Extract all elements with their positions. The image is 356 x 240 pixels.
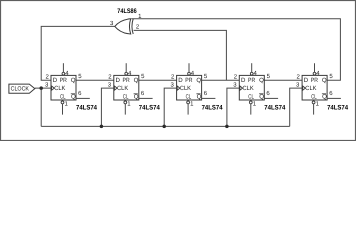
- wire: FF4 Q to FF5 D: [264, 79, 302, 81]
- junction: clock node: [39, 86, 43, 90]
- body outline: [177, 75, 202, 100]
- svg-text:D: D: [241, 77, 246, 84]
- svg-text:CLK: CLK: [117, 85, 128, 92]
- svg-text:PR: PR: [60, 77, 68, 84]
- svg-text:74LS74: 74LS74: [264, 105, 285, 112]
- wire: FF2 CLK drop to bus: [101, 88, 113, 126]
- CL active-low bubble: [249, 101, 252, 104]
- wire: PR stub: [251, 63, 253, 72]
- flip-flop U3 74LS74: [108, 63, 160, 114]
- wire: clock vertical down to bus: [40, 88, 42, 126]
- wire: CL stub: [313, 104, 315, 115]
- wire: XOR output feedback down to FF1 D input: [41, 26, 115, 80]
- svg-text:Q: Q: [322, 94, 327, 101]
- svg-text:CLK: CLK: [54, 85, 65, 92]
- wire: PR stub: [314, 63, 316, 72]
- wire: CL stub: [250, 104, 252, 115]
- wire: Qbar pin 6 stub: [202, 97, 216, 99]
- wire: FF4 CLK drop to bus: [227, 88, 239, 126]
- svg-text:CLK: CLK: [180, 85, 191, 92]
- wire: Qbar pin 6 stub: [139, 97, 153, 99]
- junction: bus under FF4: [225, 125, 229, 128]
- svg-text:CL: CL: [311, 94, 317, 101]
- wire: Qbar pin 6 stub: [264, 97, 278, 99]
- wire: FF1 Q to FF2 D: [76, 79, 114, 81]
- CL active-low bubble: [312, 101, 315, 104]
- PR active-low bubble: [250, 72, 253, 75]
- clock input wedge: [114, 86, 117, 90]
- clock input wedge: [240, 86, 243, 90]
- svg-text:Q: Q: [196, 77, 201, 84]
- svg-text:Q: Q: [322, 77, 327, 84]
- wire: bottom clock bus: [41, 125, 290, 127]
- svg-text:D: D: [116, 77, 121, 84]
- XOR gate U1 74LS86 (mirrored, output at left): [110, 8, 142, 34]
- svg-text:Q: Q: [259, 94, 264, 101]
- PR active-low bubble: [62, 72, 65, 75]
- wire: PR stub: [188, 63, 190, 72]
- svg-text:74LS74: 74LS74: [202, 105, 223, 112]
- wire: CL stub: [124, 104, 126, 115]
- svg-text:CL: CL: [60, 94, 66, 101]
- svg-text:D: D: [178, 77, 183, 84]
- clock input wedge: [177, 86, 180, 90]
- wire: FF5 Q up and across to XOR pin 1: [131, 19, 340, 80]
- wire: FF3 CLK drop to bus: [164, 88, 176, 126]
- wire: FF3 Q to FF4 D: [202, 79, 240, 81]
- wire: XOR pin 2 tap down to FF3 Q / FF4 D node: [134, 30, 227, 80]
- XOR second input arc: [132, 19, 133, 34]
- svg-text:74LS74: 74LS74: [76, 105, 97, 112]
- svg-text:PR: PR: [248, 77, 256, 84]
- junction: bus under FF2: [100, 125, 104, 128]
- CL active-low bubble: [61, 101, 64, 104]
- body outline: [239, 75, 264, 100]
- PR active-low bubble: [125, 72, 128, 75]
- gate body: [115, 19, 131, 34]
- body outline: [302, 75, 327, 100]
- svg-text:74LS86: 74LS86: [117, 8, 137, 15]
- svg-text:Q: Q: [134, 94, 139, 101]
- svg-text:CLK: CLK: [243, 85, 254, 92]
- PR active-low bubble: [313, 72, 316, 75]
- body outline: [51, 75, 76, 100]
- flip-flop U5 74LS74: [233, 63, 285, 114]
- CL active-low bubble: [187, 101, 190, 104]
- clock input wedge: [303, 86, 306, 90]
- svg-text:D: D: [53, 77, 58, 84]
- svg-text:Q: Q: [197, 94, 202, 101]
- svg-text:PR: PR: [311, 77, 319, 84]
- svg-text:CL: CL: [186, 94, 192, 101]
- svg-text:D: D: [304, 77, 309, 84]
- flip-flop U4 74LS74: [171, 63, 223, 114]
- border frame: [1, 1, 356, 141]
- svg-text:Q: Q: [259, 77, 264, 84]
- wire: Qbar pin 6 stub: [327, 97, 341, 99]
- wire: FF2 Q to FF3 D: [139, 79, 177, 81]
- wire: PR stub: [62, 63, 64, 72]
- clock input wedge: [52, 86, 55, 90]
- junction: bus under FF3: [162, 125, 166, 128]
- CLOCK net flag: [9, 84, 35, 93]
- wire: CL stub: [187, 104, 189, 115]
- flip-flop U2 74LS74: [45, 63, 97, 114]
- svg-text:Q: Q: [71, 94, 76, 101]
- svg-text:CLK: CLK: [305, 85, 316, 92]
- svg-text:Q: Q: [134, 77, 139, 84]
- svg-text:CL: CL: [248, 94, 254, 101]
- svg-text:74LS74: 74LS74: [139, 105, 160, 112]
- CL active-low bubble: [124, 101, 127, 104]
- flip-flop U6 74LS74: [296, 63, 348, 114]
- wire: CLOCK flag to FF1 CLK: [35, 87, 51, 89]
- svg-text:PR: PR: [185, 77, 193, 84]
- wire: CL stub: [62, 104, 64, 115]
- svg-text:CL: CL: [123, 94, 129, 101]
- wire: PR stub: [125, 63, 127, 72]
- PR active-low bubble: [188, 72, 191, 75]
- body outline: [114, 75, 139, 100]
- svg-text:PR: PR: [123, 77, 131, 84]
- svg-text:CLOCK: CLOCK: [11, 85, 29, 92]
- svg-text:74LS74: 74LS74: [327, 105, 348, 112]
- svg-text:Q: Q: [71, 77, 76, 84]
- wire: FF5 CLK drop to bus: [290, 88, 302, 126]
- wire: Qbar pin 6 stub: [76, 97, 90, 99]
